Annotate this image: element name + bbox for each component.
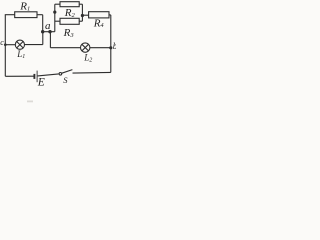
- svg-text:S: S: [63, 75, 68, 85]
- battery E short plate: [33, 74, 35, 79]
- wire vertical node a down to lamp L1 row: [42, 32, 44, 45]
- wire left vertical: [4, 15, 6, 77]
- junction dot node b: [109, 46, 112, 49]
- wire vertical R4 down to node b: [110, 15, 112, 48]
- wire bottom right: [73, 71, 111, 74]
- wire lamp L1 row: [5, 44, 15, 46]
- wire right vertical of parallel section: [81, 4, 83, 21]
- wire vertical node a down to lamp L2 row: [49, 32, 51, 48]
- switch S pivot contact: [59, 73, 62, 76]
- wire R2 stub right: [79, 3, 82, 5]
- battery E long plate: [36, 71, 38, 83]
- wire to R4: [82, 14, 88, 16]
- resistor R2: [60, 2, 79, 7]
- resistor R4: [89, 12, 109, 18]
- junction dot at node a right: [48, 30, 51, 33]
- wire R3 stub left: [55, 20, 60, 22]
- wire vertical node b down: [110, 48, 112, 73]
- wire vertical node a up to parallel section: [54, 4, 56, 32]
- wire R1 branch left: [5, 14, 15, 16]
- resistor R3: [60, 18, 79, 24]
- wire bottom left battery row: [5, 75, 34, 77]
- wire vertical R1 to node a: [42, 15, 44, 32]
- wire battery to switch: [38, 74, 59, 76]
- wire node a horizontal: [43, 31, 55, 33]
- lamp L2: [81, 43, 90, 52]
- svg-text:c: c: [0, 38, 4, 47]
- junction dot node c: [4, 43, 7, 46]
- lamp L1: [15, 40, 24, 49]
- wire R1 branch right: [37, 14, 43, 16]
- scan smudge: [27, 101, 33, 103]
- junction dot parallel-section left: [53, 11, 56, 14]
- junction dot parallel-section right / R4: [81, 14, 84, 17]
- wire R4 right: [109, 14, 111, 16]
- junction dot at node a left: [41, 30, 44, 33]
- svg-text:b: b: [113, 41, 116, 51]
- switch S blade: [62, 70, 73, 74]
- resistor R1: [15, 12, 37, 18]
- wire lamp L2 row: [50, 47, 80, 49]
- svg-text:a: a: [45, 20, 51, 32]
- svg-text:E: E: [37, 76, 45, 88]
- wire R2 stub left: [55, 3, 60, 5]
- wire R3 stub right: [79, 20, 82, 22]
